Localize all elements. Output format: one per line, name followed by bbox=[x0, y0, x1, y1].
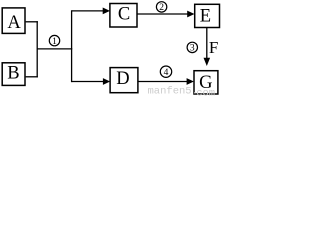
node D bbox=[110, 68, 138, 93]
bracket vertical wire bbox=[36, 21, 38, 77]
wire B to bracket bbox=[26, 76, 38, 78]
svg-text:C: C bbox=[118, 4, 130, 24]
wire A to bracket bbox=[26, 21, 38, 23]
svg-text:2: 2 bbox=[159, 3, 164, 13]
arrow wire into C bbox=[72, 8, 110, 15]
node E bbox=[195, 4, 220, 27]
svg-text:E: E bbox=[200, 6, 211, 26]
node B bbox=[2, 63, 25, 86]
svg-text:3: 3 bbox=[190, 44, 195, 54]
node C bbox=[110, 4, 137, 28]
arrow wire E to G bbox=[204, 28, 211, 66]
arrow wire D to G bbox=[138, 78, 194, 85]
svg-text:com: com bbox=[196, 87, 215, 96]
label 1 (circled) bbox=[49, 35, 59, 47]
svg-text:manfen5.: manfen5. bbox=[148, 85, 198, 96]
node G bbox=[194, 71, 218, 94]
junction vertical wire bbox=[71, 10, 73, 82]
node A bbox=[2, 8, 25, 34]
svg-text:D: D bbox=[116, 69, 129, 89]
svg-text:B: B bbox=[7, 64, 19, 84]
svg-text:F: F bbox=[209, 38, 218, 57]
svg-text:1: 1 bbox=[52, 37, 57, 47]
arrow wire C to E bbox=[137, 11, 194, 18]
svg-text:A: A bbox=[7, 13, 21, 33]
arrow wire into D bbox=[72, 78, 111, 85]
wire 1: bracket to junction bbox=[37, 48, 72, 50]
label 3 (circled) bbox=[187, 42, 197, 54]
label 2 (circled) bbox=[156, 2, 166, 14]
label 4 (circled) bbox=[160, 66, 171, 78]
svg-text:4: 4 bbox=[164, 68, 169, 78]
